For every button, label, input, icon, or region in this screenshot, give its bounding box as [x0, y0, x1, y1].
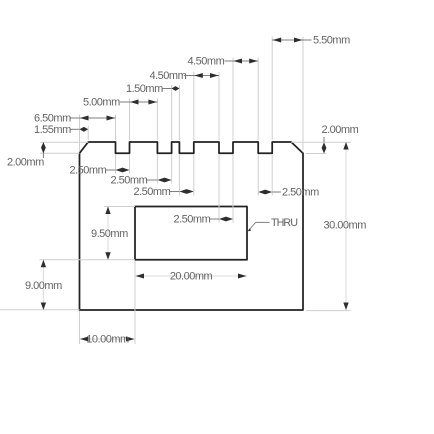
dimension 20.00mm arrows — [136, 274, 247, 279]
dimension 5.00mm line — [120, 101, 157, 103]
extension line hole top left (9.50) — [104, 206, 135, 208]
extension line chamfer top y=142 left — [40, 141, 88, 143]
svg-text:2.00mm: 2.00mm — [322, 124, 359, 136]
dimension 5.50mm arrows — [273, 38, 303, 43]
extension line notch1 left (6.50) — [115, 115, 117, 141]
dimension 5.00mm label — [83, 97, 120, 109]
dimension 9.00mm arrows — [41, 260, 46, 310]
dimension 4.50mm upper line — [225, 60, 259, 62]
dimension 4.50mm upper arrows — [234, 59, 258, 64]
svg-text:2.50mm: 2.50mm — [111, 175, 148, 187]
dimension 30.00mm line — [345, 142, 347, 310]
extension line notch5 left (4.50) — [257, 58, 259, 141]
extension line notch5 right wall down — [271, 154, 273, 195]
dimension 2.00mm right line — [323, 137, 325, 142]
dimension 2.50mm notch4 arrow — [219, 217, 233, 222]
dimension 2.50mm notch3 label — [134, 186, 171, 198]
extension line notch4 right wall down — [232, 154, 234, 222]
extension line top right y=142 — [291, 141, 351, 143]
extension line bottom right y=310 — [306, 310, 351, 312]
extension line tab left (1.50) — [171, 85, 173, 140]
dimension 5.50mm line — [272, 39, 311, 41]
dimension 30.00mm arrows — [343, 142, 348, 310]
dimension 30.00mm label — [324, 220, 367, 232]
extension line notch4 left (4.50) — [218, 72, 220, 140]
dimension 1.50mm leader — [162, 88, 172, 90]
dimension 4.50mm lower line — [184, 75, 219, 77]
dimension 9.00mm label — [25, 280, 62, 292]
extension line notch1 right (5.00) — [129, 99, 131, 141]
dimension 1.50mm label — [126, 83, 163, 95]
dimension 2.50mm notch1 label — [70, 165, 107, 177]
extension line notch1 left wall down — [115, 154, 117, 173]
dimension 2.00mm right arrow — [322, 142, 327, 153]
dimension 2.50mm notch1 arrow — [116, 168, 130, 173]
dimension 2.50mm notch5 label — [282, 187, 319, 199]
dimension 2.50mm notch3 leader — [170, 191, 179, 193]
svg-text:9.00mm: 9.00mm — [25, 280, 62, 292]
svg-text:1.50mm: 1.50mm — [126, 83, 163, 95]
svg-text:4.50mm: 4.50mm — [150, 70, 187, 82]
THRU leader — [248, 222, 270, 231]
dimension 1.55mm label — [34, 124, 71, 136]
dimension 9.50mm arrows — [105, 207, 110, 260]
dimension 2.50mm notch2 label — [111, 175, 148, 187]
extension line notch3 left wall down — [178, 154, 180, 195]
rectangular through hole — [135, 207, 247, 260]
extension line notch4 right (4.50) — [232, 58, 234, 141]
svg-text:5.50mm: 5.50mm — [313, 35, 350, 47]
dimension 6.50mm line — [70, 117, 116, 119]
dimension 2.00mm left arrow — [41, 142, 46, 153]
THRU label — [271, 217, 297, 229]
extension line notch2 right wall down — [171, 154, 173, 183]
extension line right chamfer bottom y=153 — [306, 153, 327, 155]
extension line tab right (1.50) — [178, 85, 180, 140]
dimension 2.50mm notch5 leader — [272, 191, 281, 193]
extension line chamfer top x=88 (1.55) — [87, 126, 89, 141]
extension line part left edge (6.50/1.55) — [79, 115, 81, 152]
extension line chamfer bottom y=153 left — [40, 152, 80, 154]
svg-text:1.55mm: 1.55mm — [34, 124, 71, 136]
dimension 2.50mm notch1 leader — [106, 169, 116, 171]
extension line notch2 left wall down — [156, 154, 158, 183]
dimension 2.50mm notch4 leader — [210, 218, 220, 220]
dimension 2.00mm left label — [7, 157, 44, 169]
extension line part bottom-left down (10.00) — [79, 311, 81, 344]
dimension 4.50mm lower label — [150, 70, 187, 82]
dimension 6.50mm label — [34, 113, 71, 125]
extension line notch5 left wall down — [257, 154, 259, 195]
part outline (notched plate profile) — [80, 142, 304, 310]
dimension 20.00mm label — [170, 271, 213, 283]
dimension 2.00mm left line — [42, 142, 44, 158]
dimension 20.00mm line — [135, 275, 247, 277]
dimension 1.55mm arrow — [80, 127, 89, 132]
svg-text:2.50mm: 2.50mm — [134, 186, 171, 198]
dimension 5.00mm arrows — [130, 100, 157, 105]
extension line notch3 right wall down — [193, 154, 195, 195]
svg-text:2.50mm: 2.50mm — [174, 214, 211, 226]
extension line bottom left y=310 — [0, 309, 80, 311]
svg-text:6.50mm: 6.50mm — [34, 113, 71, 125]
svg-text:THRU: THRU — [271, 217, 297, 229]
dimension 2.50mm notch5 arrow — [258, 190, 272, 195]
extension line notch5 right (5.50) — [271, 37, 273, 141]
dimension 2.50mm notch2 leader — [147, 179, 158, 181]
dimension 9.50mm label — [91, 228, 128, 240]
dimension 4.50mm upper label — [188, 56, 225, 68]
dimension 2.50mm notch4 label — [174, 214, 211, 226]
svg-text:2.00mm: 2.00mm — [7, 157, 44, 169]
svg-text:4.50mm: 4.50mm — [188, 56, 225, 68]
svg-text:9.50mm: 9.50mm — [91, 228, 128, 240]
dimension 9.00mm line — [42, 260, 44, 310]
dimension 9.50mm line — [107, 207, 109, 260]
dimension 5.50mm label — [313, 35, 350, 47]
dimension 1.50mm arrow — [172, 86, 180, 91]
svg-text:30.00mm: 30.00mm — [324, 220, 367, 232]
svg-text:20.00mm: 20.00mm — [170, 271, 213, 283]
extension line hole bottom (9.50/9.00) — [40, 259, 136, 261]
svg-text:10.00mm: 10.00mm — [86, 334, 129, 346]
extension line notch2 left (5.00) — [156, 99, 158, 141]
dimension 10.00mm label — [86, 334, 129, 346]
dimension 4.50mm lower arrows — [194, 73, 218, 78]
extension line part right edge (5.50) — [302, 37, 304, 151]
dimension 2.50mm notch2 arrow — [157, 178, 171, 183]
svg-text:2.50mm: 2.50mm — [282, 187, 319, 199]
extension line notch4 left wall down — [218, 154, 220, 222]
dimension 6.50mm arrows — [80, 116, 115, 121]
svg-text:2.50mm: 2.50mm — [70, 165, 107, 177]
dimension 10.00mm line — [80, 338, 136, 340]
dimension 2.50mm notch3 arrow — [179, 189, 193, 194]
extension line hole left down (10.00) — [134, 261, 136, 344]
dimension 10.00mm arrows — [80, 337, 135, 342]
dimension 2.00mm right label — [322, 124, 359, 136]
extension line notch1 right wall down — [129, 154, 131, 173]
dimension 1.55mm leader — [70, 128, 80, 130]
extension line notch3 right (4.50) — [193, 72, 195, 140]
svg-text:5.00mm: 5.00mm — [83, 97, 120, 109]
